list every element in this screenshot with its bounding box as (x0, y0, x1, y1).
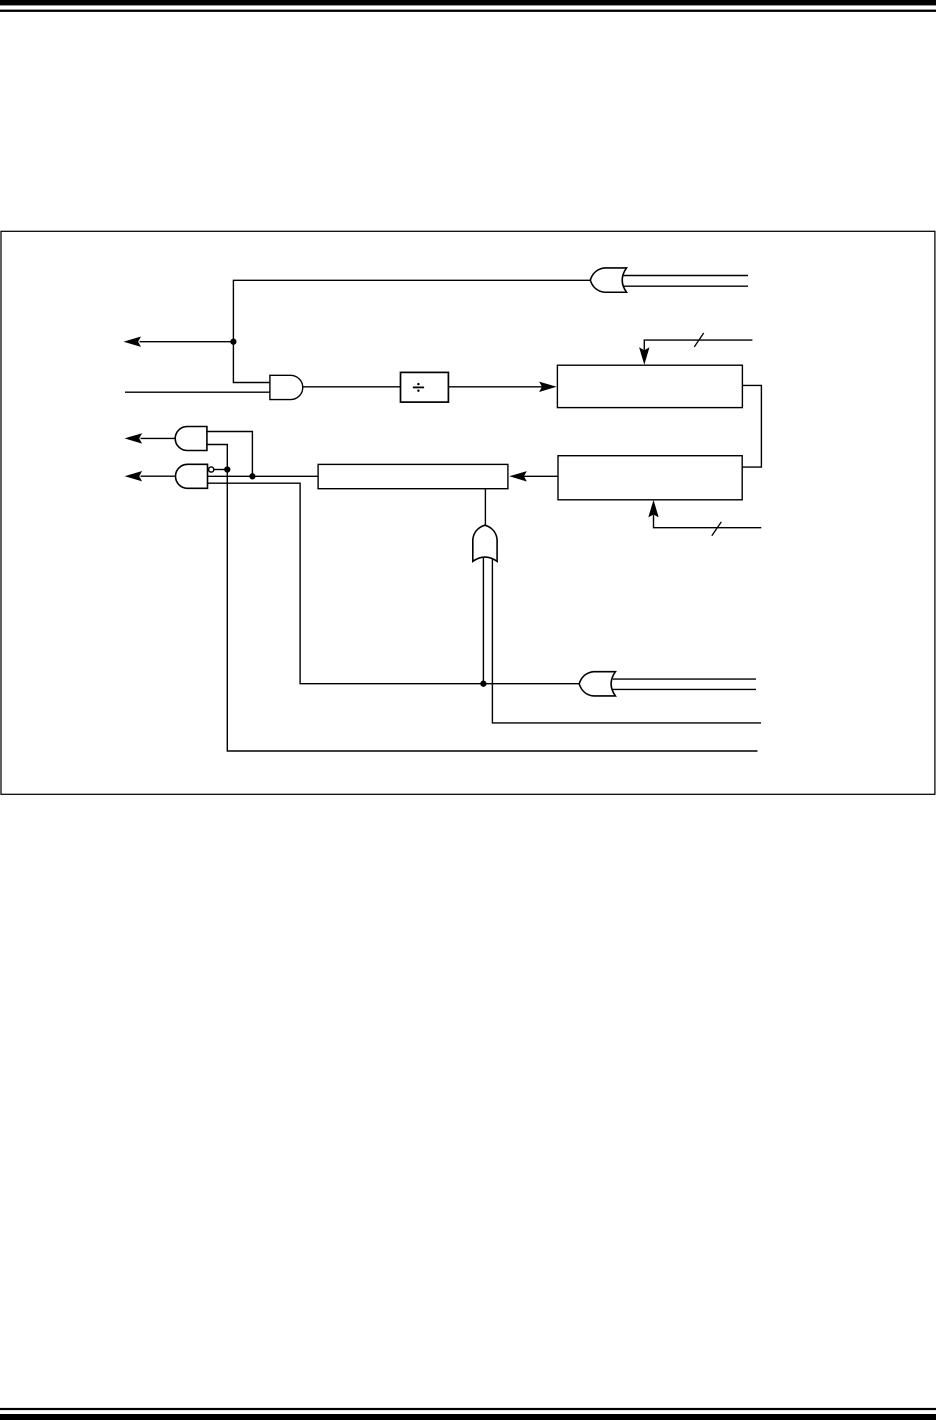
or-gate OR4 (lower right, facing left) (579, 672, 615, 696)
and-gate AND1 (prescaler enable, facing right) (270, 375, 303, 399)
bus-width slash on REG1 load line (694, 333, 703, 347)
divider box (401, 372, 449, 402)
wire: OR4 input 1 (613, 678, 756, 680)
header thin rule (0, 10, 936, 12)
wire: REG1 load line (bus from right) (644, 340, 752, 350)
footer thick bar (0, 1414, 936, 1420)
wire: bubble stub to vertical (214, 469, 228, 471)
inverter bubble on NAND2 input (209, 467, 214, 472)
wire: OR3 left input down to clear node (482, 557, 484, 684)
or-gate OR1 (top, facing left) (590, 268, 626, 292)
arrowhead down (into REG1 top) (639, 347, 649, 365)
or-gate OR3 (facing up, clear inputs) (473, 525, 497, 561)
wire: OR1 output to AND1 top input (via corner x=233) (233, 280, 590, 382)
arrowhead left (AND2 interrupt out) (125, 433, 143, 443)
wire: NAND2 bottom input down to OR4 output line (208, 483, 580, 684)
wire: AND2 output (141, 437, 176, 439)
wire: AND1 output to divider (303, 386, 401, 388)
junction dot at (483.4,683.7) (480, 681, 486, 687)
arrowhead left (NAND2 toggle out) (125, 471, 143, 481)
arrowhead right (into timer register) (539, 382, 557, 392)
arrowhead up (into REG2 bottom) (648, 500, 658, 518)
diagram frame (1, 231, 935, 794)
wire: AND2 bottom input down to bottom line 4 (207, 445, 758, 752)
wire: OR1 input 1 (624, 275, 748, 277)
divide symbol lower dot (417, 390, 419, 392)
wire: comparator bottom to OR3 output (484, 489, 486, 526)
wire: OR3 right input down and right (clear source 2) (492, 558, 761, 723)
and-gate AND2 (interrupt, facing left) (175, 427, 207, 451)
junction dot at (233.4,341.7) (230, 339, 236, 345)
wire: REG2 output to comparator (524, 475, 559, 477)
wire: TO output line from node at x=233 (140, 341, 234, 343)
register REG3 (comparator, wide box) (318, 464, 508, 488)
divide symbol upper dot (417, 383, 419, 385)
arrowhead left (TO output) (124, 337, 142, 347)
register REG1 (timer counter) (557, 365, 742, 407)
arrowhead left (into comparator) (509, 471, 527, 481)
bus-width slash on REG2 load line (712, 522, 722, 536)
footer thin rule (0, 1408, 936, 1410)
wire: AND2 top input down to match line (207, 432, 252, 476)
wire: OR1 input 2 (624, 285, 748, 287)
wire: REG1 to REG2 (right side link) (742, 385, 761, 467)
header thick bar (0, 0, 936, 5)
wire: OR4 input 2 (613, 688, 756, 690)
wire: divider output to timer register (448, 386, 542, 388)
register REG2 (compare register) (558, 456, 742, 500)
wire: count clock input to AND1 bottom (125, 391, 270, 393)
wire: REG2 load line (bus from right) (654, 515, 762, 528)
wire: match line (comparator left to NAND2 middle input) (208, 475, 319, 477)
divide symbol bar (413, 386, 424, 388)
junction dot at (252.4,476.3) (249, 473, 255, 479)
junction dot at (227.3,469.5) (224, 466, 230, 472)
nand-gate NAND2 (output control, facing left) (176, 464, 208, 488)
wire: NAND2 output (141, 475, 175, 477)
